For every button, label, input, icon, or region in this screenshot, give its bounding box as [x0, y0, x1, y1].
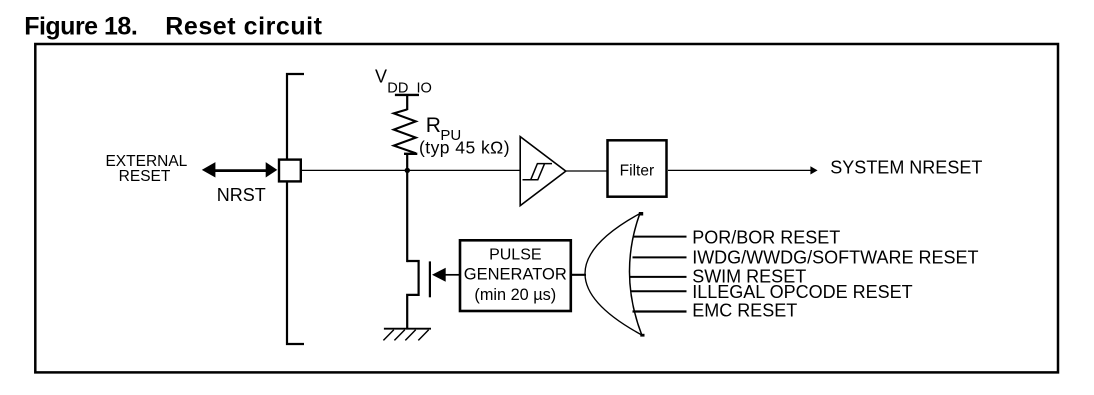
svg-text:ILLEGAL OPCODE RESET: ILLEGAL OPCODE RESET	[692, 282, 912, 302]
device boundary bracket	[287, 74, 304, 344]
svg-text:(typ 45 kΩ): (typ 45 kΩ)	[419, 138, 510, 158]
svg-text:Figure 18.: Figure 18.	[24, 13, 137, 41]
wire filter to SYSTEM NRESET	[668, 166, 818, 174]
NMOS transistor	[407, 261, 430, 328]
wire POR/BOR RESET input	[634, 236, 687, 238]
svg-text:EMC RESET: EMC RESET	[692, 301, 797, 321]
svg-text:Filter: Filter	[620, 162, 654, 179]
svg-text:SYSTEM NRESET: SYSTEM NRESET	[830, 157, 982, 177]
bidirectional arrow on NRST	[202, 162, 277, 177]
OR gate combining reset sources	[585, 212, 645, 337]
wire pulse generator to OR gate	[572, 274, 586, 276]
VDD_IO supply symbol	[395, 95, 419, 110]
wire node to transistor drain	[406, 170, 408, 262]
resistor RPU	[394, 109, 418, 171]
svg-text:POR/BOR RESET: POR/BOR RESET	[692, 228, 840, 248]
schmitt trigger input buffer	[520, 137, 566, 206]
pulse generator label	[464, 247, 567, 304]
svg-text:DD_IO: DD_IO	[387, 80, 432, 96]
EXTERNAL RESET label	[105, 153, 187, 185]
wire ILLEGAL OPCODE RESET input	[631, 290, 687, 292]
svg-text:R: R	[426, 114, 441, 137]
svg-text:GENERATOR: GENERATOR	[464, 266, 567, 284]
wire NRST net horizontal	[302, 169, 520, 171]
svg-text:NRST: NRST	[217, 185, 266, 205]
svg-text:IWDG/WWDG/SOFTWARE RESET: IWDG/WWDG/SOFTWARE RESET	[692, 248, 978, 268]
svg-text:Reset circuit: Reset circuit	[165, 13, 322, 41]
NRST pad	[279, 160, 301, 182]
wire EMC RESET input	[633, 310, 687, 312]
junction node on NRST net	[405, 168, 410, 173]
figure title	[24, 13, 322, 41]
wire IWDG/WWDG/SOFTWARE RESET input	[633, 256, 687, 258]
wire schmitt to filter	[566, 170, 607, 172]
filter block	[608, 140, 667, 196]
pulse generator block	[460, 240, 571, 311]
svg-text:V: V	[375, 67, 387, 87]
ground	[383, 329, 431, 341]
svg-text:(min 20 µs): (min 20 µs)	[474, 286, 556, 304]
svg-text:PULSE: PULSE	[489, 247, 541, 264]
VDD_IO label	[375, 67, 432, 97]
RPU label	[426, 114, 462, 144]
wire SWIM RESET input	[630, 276, 687, 278]
gate arrow from pulse generator	[432, 268, 460, 282]
svg-text:RESET: RESET	[119, 168, 171, 185]
